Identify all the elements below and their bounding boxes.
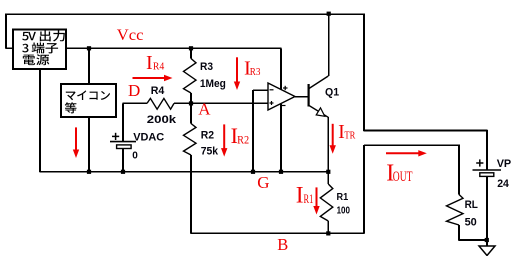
junction node (328.3,171.8) — [326, 170, 330, 174]
voltage source VDAC — [110, 131, 164, 161]
svg-text:A: A — [198, 100, 211, 119]
svg-text:VP: VP — [497, 158, 512, 170]
wire Q1 collector vertical to 24V rail — [328, 14, 330, 77]
wire Vcc down to microcontroller box — [88, 48, 90, 84]
wire 24V feed to VP plus — [364, 130, 488, 132]
wire inverting input horizontal — [253, 89, 268, 91]
wire R3 bottom lead — [190, 93, 192, 103]
resistor R4 — [147, 85, 177, 126]
wire VP top lead — [486, 130, 488, 170]
svg-text:OUT: OUT — [393, 169, 413, 185]
svg-text:R3: R3 — [250, 66, 261, 78]
wire right side of B loop going up — [363, 145, 365, 233]
junction node (253,171.8) — [251, 170, 255, 174]
junction node (328.7,13.7) — [327, 12, 331, 16]
junction node (281,171.8) — [279, 170, 283, 174]
wire stub into 5V box left side — [6, 47, 14, 49]
wire top 24V rail — [5, 13, 364, 15]
wire R2 top lead — [190, 103, 192, 123]
resistor R2 — [184, 124, 219, 158]
svg-text:R4: R4 — [151, 85, 165, 97]
resistor R1 — [320, 184, 350, 221]
wire op-amp negative supply to G rail — [280, 104, 282, 172]
svg-text:R4: R4 — [153, 60, 165, 72]
junction node (328.3,233.4) — [326, 231, 330, 235]
wire inverting input feedback from G rail — [252, 90, 254, 172]
svg-text:200k: 200k — [147, 114, 177, 126]
wire op-amp output to Q1 base — [295, 96, 308, 98]
wire VP minus to ground symbol — [486, 240, 488, 247]
wire VP bottom lead — [486, 176, 488, 240]
svg-text:50: 50 — [465, 216, 477, 228]
wire R3 top lead — [190, 48, 192, 58]
svg-text:G: G — [257, 173, 269, 192]
svg-text:100: 100 — [337, 205, 351, 217]
ground — [479, 246, 495, 256]
current arrow microcontroller branch — [73, 127, 79, 158]
junction node (191,48.3) — [189, 46, 193, 50]
svg-text:D: D — [128, 81, 140, 100]
svg-text:24: 24 — [497, 178, 510, 190]
wire RL return to VP minus — [459, 239, 488, 241]
resistor RL — [447, 195, 479, 229]
wire R1 top lead — [327, 172, 329, 184]
wire ground rail G — [39, 171, 328, 173]
junction node (123,171.8) — [121, 170, 125, 174]
transistor Q1 — [309, 76, 340, 117]
junction node (89,171.8) — [87, 170, 91, 174]
svg-text:R1: R1 — [337, 191, 349, 203]
svg-text:R2: R2 — [237, 132, 249, 146]
wire microcontroller box to ground rail — [88, 117, 90, 172]
op-amp U1 — [268, 83, 295, 110]
wire VDAC top lead — [122, 103, 124, 141]
current arrow IR4 — [133, 52, 173, 81]
current arrow ITR — [330, 121, 356, 154]
junction node (191,103.4) — [189, 101, 193, 105]
svg-text:I: I — [296, 182, 304, 208]
wire RL bottom lead — [458, 225, 460, 241]
wire B rail — [190, 232, 364, 234]
svg-text:RL: RL — [465, 199, 479, 211]
svg-text:R1: R1 — [304, 191, 314, 206]
current arrow IR2 — [221, 123, 249, 157]
wire node D to R4 left — [122, 102, 147, 104]
current arrow IR1 — [296, 182, 320, 214]
wire Q1 emitter vertical to G rail — [327, 117, 329, 172]
svg-text:I: I — [146, 52, 153, 74]
wire output run to RL — [364, 144, 459, 146]
wire 24V rail right drop — [363, 14, 365, 132]
wire VDAC bottom lead — [122, 149, 124, 172]
svg-text:B: B — [277, 235, 288, 254]
wire Vcc rail from 5V box to op-amp supply — [66, 47, 282, 49]
junction node (89,48.3) — [87, 46, 91, 50]
svg-text:VDAC: VDAC — [133, 131, 164, 143]
resistor R3 — [184, 59, 226, 94]
wire R2 bottom lead crossing G rail down to B rail — [190, 155, 192, 233]
wire node A to op-amp noninverting input — [191, 102, 268, 104]
svg-text:75k: 75k — [201, 145, 219, 157]
svg-text:TR: TR — [344, 129, 356, 141]
voltage source VP — [473, 158, 512, 190]
current arrow IOUT — [386, 150, 427, 186]
5V three-terminal regulator box — [13, 30, 66, 70]
microcontroller box — [61, 84, 116, 117]
svg-text:R2: R2 — [201, 130, 214, 142]
wire RL top lead — [458, 145, 460, 195]
svg-text:1Meg: 1Meg — [200, 78, 226, 90]
wire R1 bottom lead — [327, 221, 329, 233]
svg-text:R3: R3 — [200, 61, 213, 73]
current arrow IR3 — [234, 57, 261, 90]
wire 5V box bottom to ground rail — [39, 69, 41, 172]
svg-text:0: 0 — [132, 150, 138, 161]
wire left drop to 5V regulator input — [5, 13, 7, 48]
wire op-amp positive supply from Vcc rail — [280, 48, 282, 90]
wire R4 right to node A — [174, 102, 191, 104]
svg-text:Vcc: Vcc — [117, 27, 144, 44]
svg-text:Q1: Q1 — [325, 86, 339, 98]
junction node (486.8,240) — [485, 238, 489, 242]
